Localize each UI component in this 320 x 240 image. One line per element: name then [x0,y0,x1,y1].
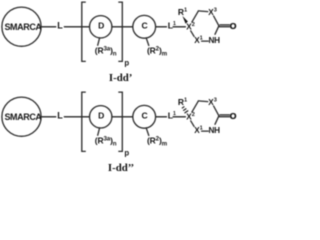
svg-text:L: L [57,111,63,121]
bond CH2 apex to X3 [198,10,207,13]
left bracket [82,2,86,61]
svg-text:X1: X1 [194,35,203,44]
bond X3 to carbonyl C [214,16,219,26]
svg-text:O: O [230,21,237,31]
bond X1 to X2 [191,31,194,37]
svg-text:SMARCA: SMARCA [4,112,42,122]
svg-text:D: D [98,20,104,30]
wire SMARCA to L 2 [41,116,56,118]
bond X2 to CH2 apex 2 [192,101,199,112]
svg-text:C: C [141,110,147,120]
bond D to R3a 2 [98,128,100,135]
SMARCA circle [2,7,41,46]
svg-text:C: C [141,20,147,30]
circle C 2 [133,105,156,128]
svg-text:X3: X3 [208,8,217,17]
svg-text:R1: R1 [178,7,187,17]
double bond C=O [219,26,229,28]
svg-text:I-dd’: I-dd’ [109,72,132,84]
wire D to C 2 [112,116,133,118]
svg-text:X2: X2 [186,22,195,31]
right bracket 2 [118,92,122,151]
bond C to R2 [146,38,149,46]
bond carbonyl C to NH [215,26,219,35]
svg-text:L: L [57,21,63,31]
bond C to R2 2 [146,128,149,136]
circle D [90,16,112,38]
wire L to D circle 2 [64,116,89,118]
bond X2 to CH2 apex [192,11,199,22]
bond CH2 apex to X3 2 [198,100,207,103]
svg-text:SMARCA: SMARCA [4,22,42,32]
wedge bond R1 to X2 (bold) [182,16,188,24]
svg-text:(R2)m: (R2)m [147,135,168,147]
svg-text:(R2)m: (R2)m [147,45,168,57]
svg-text:X3: X3 [208,98,217,107]
formula I-dd' : top structure [2,2,237,67]
svg-text:(R3a)n: (R3a)n [95,135,117,147]
svg-text:I-dd’’: I-dd’’ [108,162,134,174]
bond X1 to X2 2 [191,121,194,127]
formula I-dd'' : bottom structure [2,92,237,157]
circle D 2 [90,106,112,128]
svg-text:R1: R1 [178,97,187,107]
bond NH to X1 [202,40,209,42]
right bracket [118,2,122,61]
svg-text:D: D [98,110,104,120]
svg-text:NH: NH [209,36,221,45]
circle C [133,15,156,38]
svg-text:L1: L1 [168,110,176,120]
wire D to C [112,26,133,28]
bond X3 to carbonyl C 2 [214,106,219,116]
wire SMARCA to L [41,26,56,28]
SMARCA circle 2 [2,97,41,136]
wire C to L1 [156,26,167,28]
svg-text:X1: X1 [194,125,203,134]
hashed wedge bond R1 to X2 [182,107,188,113]
left bracket 2 [82,92,86,151]
svg-text:X2: X2 [186,112,195,121]
double bond C=O 2 [219,116,229,118]
bond D to R3a [98,38,100,45]
bond carbonyl C to NH 2 [215,116,219,125]
svg-text:(R3a)n: (R3a)n [95,45,117,57]
wire L1 to X2 2 [173,116,185,118]
wire L to D circle [64,26,89,28]
svg-text:L1: L1 [168,20,176,30]
wire C to L1 2 [156,116,167,118]
svg-text:O: O [230,111,237,121]
svg-text:NH: NH [209,126,221,135]
bond NH to X1 2 [202,130,209,132]
svg-text:p: p [124,58,129,67]
svg-text:p: p [124,148,129,157]
wire L1 to X2 [173,26,185,28]
